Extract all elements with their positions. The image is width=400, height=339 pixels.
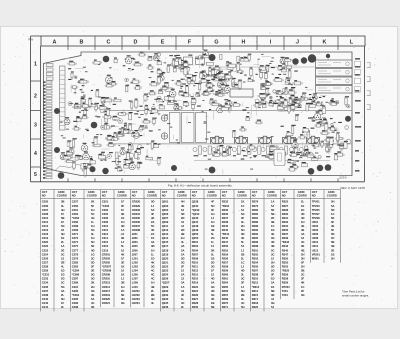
svg-text:1K: 1K xyxy=(271,285,274,289)
svg-text:R298: R298 xyxy=(252,244,259,248)
cluster center-top xyxy=(160,50,237,94)
svg-text:R308: R308 xyxy=(252,273,259,277)
svg-text:5A: 5A xyxy=(211,281,214,285)
svg-text:3J: 3J xyxy=(301,236,304,240)
svg-text:4C: 4C xyxy=(151,273,154,277)
svg-text:*R234: *R234 xyxy=(222,204,230,208)
svg-text:1C: 1C xyxy=(271,224,274,228)
svg-text:NO: NO xyxy=(282,194,286,198)
svg-text:1D: 1D xyxy=(271,277,274,281)
svg-text:4H: 4H xyxy=(151,297,154,301)
svg-text:5L: 5L xyxy=(211,232,214,236)
svg-text:NO: NO xyxy=(162,194,166,198)
svg-text:3D: 3D xyxy=(271,293,274,297)
svg-text:4B: 4B xyxy=(331,244,334,248)
svg-text:5J: 5J xyxy=(241,244,244,248)
cluster mid-band xyxy=(107,57,303,117)
svg-text:4G: 4G xyxy=(91,216,95,220)
svg-text:U210: U210 xyxy=(312,240,319,244)
svg-text:5H: 5H xyxy=(331,200,334,204)
svg-text:R278: R278 xyxy=(252,200,259,204)
svg-text:C275: C275 xyxy=(72,244,79,248)
svg-text:U203: U203 xyxy=(312,228,319,232)
svg-text:Q249: Q249 xyxy=(192,228,199,232)
svg-text:3G: 3G xyxy=(211,285,215,289)
svg-text:Q201: Q201 xyxy=(162,200,169,204)
bottom frame ticks xyxy=(68,178,338,182)
svg-text:3A: 3A xyxy=(181,281,184,285)
lower trace second xyxy=(194,160,330,162)
below-bus capacitor row xyxy=(193,146,308,156)
svg-text:C312: C312 xyxy=(102,228,109,232)
svg-text:4K: 4K xyxy=(151,216,154,220)
svg-text:R295: R295 xyxy=(252,236,259,240)
svg-text:4E: 4E xyxy=(271,232,274,236)
svg-text:4A: 4A xyxy=(181,244,184,248)
svg-text:2K: 2K xyxy=(91,200,94,204)
svg-text:R307: R307 xyxy=(252,269,259,273)
svg-text:5J: 5J xyxy=(121,248,124,252)
svg-text:CR234: CR234 xyxy=(132,212,141,216)
svg-text:B: B xyxy=(80,40,84,46)
svg-text:R204: R204 xyxy=(192,248,199,252)
svg-text:CR205: CR205 xyxy=(102,260,111,264)
svg-text:5L: 5L xyxy=(121,244,124,248)
svg-text:R210: R210 xyxy=(192,260,199,264)
svg-text:3G: 3G xyxy=(91,289,95,293)
svg-text:5E: 5E xyxy=(331,248,334,252)
svg-text:R209: R209 xyxy=(192,256,199,260)
svg-text:5A: 5A xyxy=(331,204,334,208)
svg-text:3B: 3B xyxy=(271,220,274,224)
svg-text:COORD: COORD xyxy=(327,194,337,198)
svg-text:1K: 1K xyxy=(121,273,124,277)
svg-text:4B: 4B xyxy=(211,228,214,232)
segmented vertical strip connector J201 xyxy=(60,66,66,130)
svg-text:CR235: CR235 xyxy=(132,216,141,220)
svg-text:C291: C291 xyxy=(72,285,79,289)
svg-text:CKT: CKT xyxy=(282,190,288,194)
svg-text:5K: 5K xyxy=(91,244,94,248)
cluster bottom-left band xyxy=(60,140,142,177)
cluster top-edge xyxy=(114,52,183,70)
svg-text:C261: C261 xyxy=(72,208,79,212)
svg-text:1C: 1C xyxy=(331,212,334,216)
svg-text:1H: 1H xyxy=(301,220,304,224)
svg-text:5B: 5B xyxy=(211,305,214,309)
svg-text:2H: 2H xyxy=(301,252,304,256)
svg-text:5C: 5C xyxy=(61,252,64,256)
svg-text:R286: R286 xyxy=(252,220,259,224)
svg-text:C236: C236 xyxy=(42,285,49,289)
svg-text:4E: 4E xyxy=(301,224,304,228)
svg-text:5G: 5G xyxy=(61,285,65,289)
svg-text:4D: 4D xyxy=(301,212,304,216)
svg-text:5A: 5A xyxy=(91,297,94,301)
svg-text:R332: R332 xyxy=(282,220,289,224)
svg-text:2D: 2D xyxy=(91,260,94,264)
parts location table xyxy=(41,190,341,312)
svg-text:3C: 3C xyxy=(271,252,274,256)
svg-text:C298: C298 xyxy=(72,305,79,309)
svg-text:*CR207: *CR207 xyxy=(102,265,112,269)
svg-text:3L: 3L xyxy=(241,220,244,224)
svg-text:R245: R245 xyxy=(222,236,229,240)
svg-text:R238: R238 xyxy=(222,220,229,224)
svg-text:NO: NO xyxy=(312,194,316,198)
svg-text:Q207: Q207 xyxy=(162,216,169,220)
svg-text:4B: 4B xyxy=(301,248,304,252)
svg-text:C260: C260 xyxy=(72,204,79,208)
svg-text:COORD: COORD xyxy=(87,194,97,198)
svg-text:3G: 3G xyxy=(301,293,305,297)
svg-text:GRID: GRID xyxy=(88,190,95,194)
svg-text:C228: C228 xyxy=(42,265,49,269)
svg-text:1H: 1H xyxy=(151,281,154,285)
svg-text:C278: C278 xyxy=(72,252,79,256)
svg-text:U206: U206 xyxy=(312,232,319,236)
svg-text:3F: 3F xyxy=(121,204,124,208)
svg-text:3: 3 xyxy=(34,123,37,129)
svg-text:4H: 4H xyxy=(181,200,184,204)
svg-text:COORD: COORD xyxy=(117,194,127,198)
svg-text:3G: 3G xyxy=(121,301,125,305)
svg-text:5A: 5A xyxy=(181,248,184,252)
svg-text:NO: NO xyxy=(72,194,76,198)
svg-text:3D: 3D xyxy=(151,244,154,248)
svg-text:1J: 1J xyxy=(151,204,154,208)
svg-text:R259: R259 xyxy=(222,269,229,273)
svg-text:4B: 4B xyxy=(151,285,154,289)
svg-text:L204: L204 xyxy=(132,269,139,273)
svg-text:1F: 1F xyxy=(211,269,214,273)
svg-text:4C: 4C xyxy=(151,269,154,273)
svg-text:4F: 4F xyxy=(151,212,154,216)
svg-text:*R342: *R342 xyxy=(282,240,290,244)
svg-text:C257: C257 xyxy=(72,200,79,204)
svg-text:5J: 5J xyxy=(181,208,184,212)
left row-number column outline xyxy=(31,36,365,182)
svg-text:U202: U202 xyxy=(312,224,319,228)
svg-text:2A: 2A xyxy=(181,273,184,277)
svg-text:R283: R283 xyxy=(252,212,259,216)
svg-text:R328: R328 xyxy=(282,208,289,212)
svg-text:*CR208: *CR208 xyxy=(102,269,112,273)
svg-text:2C: 2C xyxy=(301,208,304,212)
svg-text:2D: 2D xyxy=(271,265,274,269)
svg-text:C224: C224 xyxy=(42,252,49,256)
svg-text:1G: 1G xyxy=(91,252,95,256)
cluster center-left xyxy=(105,53,165,171)
svg-text:CKT: CKT xyxy=(192,190,198,194)
svg-text:5D: 5D xyxy=(331,232,334,236)
svg-text:C234: C234 xyxy=(42,281,49,285)
svg-text:2D: 2D xyxy=(181,256,184,260)
svg-text:4J: 4J xyxy=(181,220,184,224)
svg-text:R240: R240 xyxy=(222,224,229,228)
cluster far-left xyxy=(67,60,111,172)
svg-text:5J: 5J xyxy=(121,269,124,273)
svg-text:1H: 1H xyxy=(151,248,154,252)
svg-text:L209: L209 xyxy=(132,281,139,285)
svg-text:1J: 1J xyxy=(241,285,244,289)
svg-text:3G: 3G xyxy=(211,265,215,269)
svg-text:R334: R334 xyxy=(282,224,289,228)
svg-text:GRID: GRID xyxy=(118,190,125,194)
svg-text:COORD: COORD xyxy=(57,194,67,198)
svg-text:COORD: COORD xyxy=(237,194,247,198)
svg-text:1D: 1D xyxy=(61,273,64,277)
svg-text:Q212: Q212 xyxy=(162,228,169,232)
svg-text:R216: R216 xyxy=(192,277,199,281)
relay can K310 xyxy=(274,150,285,166)
svg-text:C305: C305 xyxy=(102,212,109,216)
svg-text:CR221: CR221 xyxy=(102,301,111,305)
svg-text:4F: 4F xyxy=(211,200,214,204)
svg-text:4L: 4L xyxy=(151,301,154,305)
svg-text:3G: 3G xyxy=(181,260,185,264)
svg-text:R269: R269 xyxy=(222,297,229,301)
svg-text:2D: 2D xyxy=(181,228,184,232)
svg-text:1K: 1K xyxy=(151,236,154,240)
svg-text:*C284: *C284 xyxy=(72,269,80,273)
svg-text:L202: L202 xyxy=(132,260,139,264)
svg-text:Q252: Q252 xyxy=(192,236,199,240)
svg-text:R356: R356 xyxy=(282,273,289,277)
svg-text:2A: 2A xyxy=(181,252,184,256)
svg-text:GRID: GRID xyxy=(58,190,65,194)
svg-text:CR217: CR217 xyxy=(102,289,111,293)
svg-text:U212: U212 xyxy=(312,244,319,248)
svg-text:L201: L201 xyxy=(132,256,139,260)
svg-text:1B: 1B xyxy=(211,224,214,228)
svg-text:4K: 4K xyxy=(91,293,94,297)
svg-text:Q222: Q222 xyxy=(162,265,169,269)
svg-text:Q224: Q224 xyxy=(162,273,169,277)
svg-text:5D: 5D xyxy=(151,200,154,204)
svg-text:1A: 1A xyxy=(271,200,274,204)
faint trace scribbles xyxy=(63,55,338,175)
svg-text:A: A xyxy=(53,40,57,46)
svg-text:C223: C223 xyxy=(42,248,49,252)
svg-text:R227: R227 xyxy=(192,297,199,301)
svg-text:1H: 1H xyxy=(91,224,94,228)
svg-text:U213: U213 xyxy=(312,248,319,252)
svg-text:3C: 3C xyxy=(331,236,334,240)
svg-text:Q223: Q223 xyxy=(162,269,169,273)
svg-text:R260: R260 xyxy=(222,273,229,277)
svg-text:J203: J203 xyxy=(132,240,138,244)
svg-text:5G: 5G xyxy=(91,273,95,277)
svg-text:1E: 1E xyxy=(61,236,64,240)
svg-text:LR202: LR202 xyxy=(132,293,141,297)
svg-text:4K: 4K xyxy=(301,281,304,285)
cluster center-right-top xyxy=(235,54,297,114)
svg-text:GRID: GRID xyxy=(178,190,185,194)
row dividers and numbers 1-5 xyxy=(31,81,41,167)
svg-text:CR201: CR201 xyxy=(102,252,111,256)
svg-text:C266: C266 xyxy=(72,220,79,224)
grid column letters A-L xyxy=(53,40,354,46)
svg-text:*C286: *C286 xyxy=(72,273,80,277)
svg-text:1K: 1K xyxy=(241,200,244,204)
svg-text:4K: 4K xyxy=(211,297,214,301)
svg-text:4K: 4K xyxy=(151,228,154,232)
grid header band outline xyxy=(41,36,365,46)
svg-text:5H: 5H xyxy=(241,305,244,309)
svg-text:C227: C227 xyxy=(42,260,49,264)
svg-text:C316: C316 xyxy=(102,244,109,248)
svg-text:C315: C315 xyxy=(102,240,109,244)
svg-text:2L: 2L xyxy=(61,305,64,309)
svg-text:C205: C205 xyxy=(42,200,49,204)
svg-text:C244: C244 xyxy=(42,305,49,309)
svg-text:1H: 1H xyxy=(91,236,94,240)
svg-text:*R244: *R244 xyxy=(222,232,230,236)
svg-text:C229: C229 xyxy=(42,269,49,273)
svg-text:2A: 2A xyxy=(151,220,154,224)
svg-text:1A: 1A xyxy=(121,228,124,232)
right frame line xyxy=(364,46,366,182)
svg-text:R270: R270 xyxy=(222,301,229,305)
svg-text:5B: 5B xyxy=(301,269,304,273)
svg-text:Q250: Q250 xyxy=(192,232,199,236)
svg-text:1B: 1B xyxy=(211,301,214,305)
svg-text:L205: L205 xyxy=(132,273,139,277)
svg-text:4: 4 xyxy=(34,151,37,157)
svg-text:R290: R290 xyxy=(252,228,259,232)
svg-text:CR220: CR220 xyxy=(102,297,111,301)
svg-text:4J: 4J xyxy=(121,232,124,236)
svg-text:5H: 5H xyxy=(241,289,244,293)
svg-text:5F: 5F xyxy=(301,260,304,264)
svg-text:R201: R201 xyxy=(192,240,199,244)
svg-text:3K: 3K xyxy=(91,305,94,309)
svg-text:1L: 1L xyxy=(151,252,154,256)
svg-text:C306: C306 xyxy=(102,216,109,220)
svg-text:C296: C296 xyxy=(72,301,79,305)
svg-text:C295: C295 xyxy=(72,297,79,301)
svg-text:CR203: CR203 xyxy=(102,256,111,260)
svg-text:1B: 1B xyxy=(211,256,214,260)
svg-text:5: 5 xyxy=(34,172,37,178)
svg-text:C218: C218 xyxy=(42,232,49,236)
svg-text:*C302: *C302 xyxy=(102,204,110,208)
svg-text:CKT: CKT xyxy=(102,190,108,194)
svg-text:CKT: CKT xyxy=(132,190,138,194)
svg-text:CR213: CR213 xyxy=(102,281,111,285)
svg-text:J202: J202 xyxy=(132,236,138,240)
svg-text:C216: C216 xyxy=(42,228,49,232)
svg-text:GRID: GRID xyxy=(328,190,335,194)
svg-text:R250: R250 xyxy=(222,244,229,248)
svg-text:1A: 1A xyxy=(61,244,64,248)
svg-text:R337: R337 xyxy=(282,232,289,236)
svg-text:C274: C274 xyxy=(72,240,79,244)
svg-text:serial number ranges.: serial number ranges. xyxy=(342,294,369,298)
svg-text:CKT: CKT xyxy=(162,190,168,194)
svg-text:E: E xyxy=(161,40,165,46)
svg-text:R212: R212 xyxy=(192,269,199,273)
svg-text:CKT: CKT xyxy=(42,190,48,194)
mounting holes xyxy=(54,54,351,179)
svg-text:5K: 5K xyxy=(271,208,274,212)
heat sink blocks Q201 area xyxy=(170,113,181,143)
svg-text:R257: R257 xyxy=(222,260,229,264)
svg-text:CR232: CR232 xyxy=(132,208,141,212)
svg-text:R279: R279 xyxy=(252,204,259,208)
svg-text:Q215: Q215 xyxy=(162,240,169,244)
svg-text:C277: C277 xyxy=(72,248,79,252)
svg-text:Q230: Q230 xyxy=(162,289,169,293)
svg-text:LR203: LR203 xyxy=(132,297,141,301)
svg-text:R228: R228 xyxy=(192,301,199,305)
svg-text:GRID: GRID xyxy=(268,190,275,194)
svg-text:*C294: *C294 xyxy=(72,293,80,297)
svg-text:L210: L210 xyxy=(132,285,139,289)
svg-text:2H: 2H xyxy=(271,260,274,264)
svg-text:R280: R280 xyxy=(252,208,259,212)
svg-text:COORD: COORD xyxy=(207,194,217,198)
svg-text:4D: 4D xyxy=(91,248,94,252)
svg-text:5B: 5B xyxy=(61,216,64,220)
svg-text:NO: NO xyxy=(252,194,256,198)
svg-text:4C: 4C xyxy=(301,240,304,244)
mounting screws with cross xyxy=(161,115,167,121)
svg-text:4K: 4K xyxy=(121,252,124,256)
svg-text:NO: NO xyxy=(132,194,136,198)
svg-text:4C: 4C xyxy=(241,301,244,305)
svg-text:5D: 5D xyxy=(331,208,334,212)
svg-text:J201: J201 xyxy=(132,232,138,236)
svg-text:T301: T301 xyxy=(282,293,289,297)
svg-text:2C: 2C xyxy=(121,289,124,293)
svg-text:5G: 5G xyxy=(91,228,95,232)
svg-text:2D: 2D xyxy=(181,216,184,220)
svg-text:C293: C293 xyxy=(72,289,79,293)
svg-text:R301: R301 xyxy=(252,248,259,252)
svg-text:1D: 1D xyxy=(61,269,64,273)
svg-text:R345: R345 xyxy=(282,248,289,252)
svg-text:3G: 3G xyxy=(151,265,155,269)
svg-text:C319: C319 xyxy=(102,248,109,252)
svg-text:R284: R284 xyxy=(252,216,259,220)
svg-text:5B: 5B xyxy=(271,212,274,216)
cluster bottom-mid xyxy=(212,144,315,163)
svg-text:L: L xyxy=(350,40,354,46)
svg-text:R317: R317 xyxy=(252,297,259,301)
svg-text:1F: 1F xyxy=(121,256,124,260)
svg-text:Q204: Q204 xyxy=(162,208,169,212)
svg-text:R219: R219 xyxy=(192,281,199,285)
svg-text:4E: 4E xyxy=(301,228,304,232)
svg-text:Q206: Q206 xyxy=(162,212,169,216)
svg-text:3E: 3E xyxy=(121,260,124,264)
svg-text:2L: 2L xyxy=(151,289,154,293)
board bottom-left jag wire xyxy=(55,164,81,171)
svg-text:1H: 1H xyxy=(121,285,124,289)
svg-text:Q220: Q220 xyxy=(162,256,169,260)
svg-text:R258: R258 xyxy=(222,265,229,269)
svg-text:CKT: CKT xyxy=(312,190,318,194)
svg-text:R226: R226 xyxy=(192,293,199,297)
svg-text:CR237: CR237 xyxy=(132,224,141,228)
svg-text:R203: R203 xyxy=(192,244,199,248)
svg-text:GRID: GRID xyxy=(208,190,215,194)
svg-text:CR219: CR219 xyxy=(102,293,111,297)
svg-text:C282: C282 xyxy=(72,260,79,264)
svg-text:R237: R237 xyxy=(222,216,229,220)
